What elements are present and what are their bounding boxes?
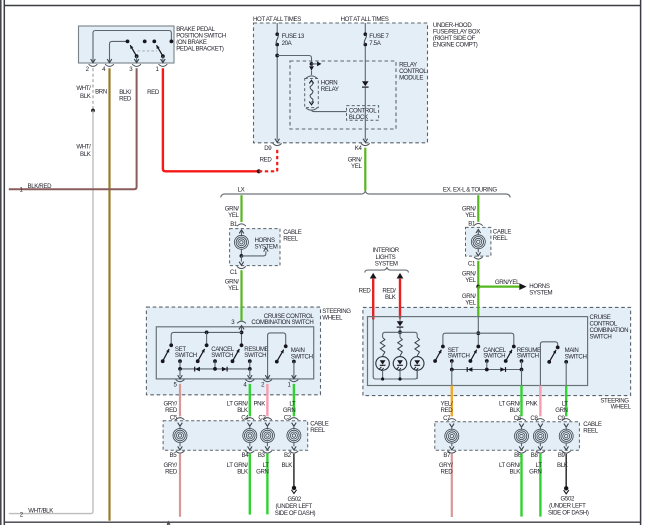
wire diode to K4 — [363, 88, 368, 143]
label LT GRN/BLK (C6) — [499, 400, 521, 414]
svg-text:B5: B5 — [170, 452, 178, 459]
label GRN/YEL (LX upper) — [225, 205, 240, 219]
wire LT GRN from B8 down — [539, 454, 541, 517]
svg-text:WHEEL: WHEEL — [322, 315, 343, 322]
horn relay coil K (box) — [305, 76, 319, 108]
svg-text:BRN: BRN — [95, 89, 107, 96]
svg-text:WHT/: WHT/ — [76, 85, 91, 92]
label LT GRN (pin1) — [283, 400, 296, 414]
wire fuse 7 down to diode — [364, 46, 366, 81]
label cruise control combination switch (EX) — [590, 314, 629, 341]
label cruise control combination switch (LX) — [251, 313, 314, 326]
label GRY/RED (pin5) — [164, 400, 178, 414]
cancel switch (EX) — [469, 345, 507, 370]
label LT GRN/BLK (pin4) — [227, 400, 249, 414]
connector pins 5 4 2 1 (LX cruise) — [174, 380, 299, 389]
svg-text:BLK: BLK — [510, 468, 521, 475]
wire BLK from B2 to ground G502 — [293, 454, 295, 486]
svg-text:COMBINATION SWITCH: COMBINATION SWITCH — [251, 319, 313, 326]
arrow up to interior lights (RED) — [370, 273, 377, 279]
connectors B5 B4 B3 B2 — [170, 451, 299, 459]
wire resume contact to pin C6 (EX) — [521, 370, 523, 386]
wire LT GRN/BLK pin4 to C4 — [249, 384, 251, 417]
label cable reel lower right — [583, 421, 602, 435]
set switch (LX) — [161, 343, 197, 369]
label horns system (EX) — [529, 283, 552, 297]
node - relay feed junction — [310, 62, 314, 66]
svg-text:SWITCH: SWITCH — [565, 353, 587, 360]
brace for interior lights system — [365, 267, 409, 273]
wire GRN/YEL EX branch to B1 — [477, 195, 479, 222]
svg-text:C6: C6 — [514, 415, 522, 422]
splice node on WHT/BLK wire — [91, 109, 95, 113]
svg-text:BLK: BLK — [385, 294, 396, 301]
wire GRN/YEL entering LX cruise box — [240, 307, 242, 321]
label GRY/RED (B5) — [164, 462, 178, 476]
arrow down to horn relay — [309, 66, 314, 75]
svg-text:WHT/BLK: WHT/BLK — [28, 507, 53, 514]
svg-text:ENGINE COMPT): ENGINE COMPT) — [433, 42, 478, 49]
main switch (EX) — [540, 342, 586, 386]
svg-text:BLK: BLK — [557, 462, 568, 469]
resistor R2 + LED 2 (illumination) — [393, 332, 407, 379]
gang link (dashed) between blades — [138, 50, 158, 52]
node - brake switch open contact — [143, 40, 147, 44]
label LT GRN (B8) — [529, 462, 542, 476]
cable reel coil C2/B2 — [287, 423, 301, 450]
wire LT GRN/BLK from B4 down — [249, 454, 251, 515]
svg-text:BLK: BLK — [80, 93, 91, 100]
label 2 WHT/BLK at left edge — [20, 507, 53, 518]
branch arrow to horns system (LX) — [241, 248, 268, 256]
svg-text:SWITCH: SWITCH — [175, 352, 197, 359]
cable reel coil C9/B9 — [559, 424, 573, 450]
svg-text:SWITCH: SWITCH — [291, 354, 313, 361]
svg-text:GRN: GRN — [256, 468, 269, 475]
label GRY/RED (B7) — [439, 462, 453, 476]
diode D1 (LX rail, cathode left) — [195, 367, 200, 372]
arrow up to interior lights (RED/BLK) — [397, 273, 404, 279]
svg-text:B2: B2 — [284, 452, 292, 459]
cruise switch LX inner box — [156, 327, 313, 379]
wire GRN/YEL from K4 to branch bus — [364, 148, 366, 191]
label G502 under left side of dash (right) — [548, 496, 589, 517]
svg-text:REEL: REEL — [583, 428, 598, 435]
wire LT GRN C9 — [565, 386, 567, 417]
label G502 under left side of dash (left) — [275, 496, 316, 517]
wire horn relay to control block — [312, 110, 347, 112]
svg-text:BLK: BLK — [510, 407, 521, 414]
svg-text:BLK: BLK — [282, 462, 293, 469]
svg-text:B4: B4 — [242, 452, 250, 459]
wire BRN from pin 4 — [108, 68, 110, 521]
node - brake switch pin2 contact — [170, 40, 174, 44]
wire LT GRN/BLK from B6 down — [520, 454, 522, 517]
wire BLK from B9 to ground G502 — [565, 454, 567, 487]
LED feed rail — [383, 332, 418, 337]
wire RED dashed to connector D9 — [259, 148, 277, 172]
label RED/BLK — [382, 288, 396, 302]
resume switch (LX) — [231, 343, 269, 369]
diode D4 (EX rail, cathode right) — [500, 367, 505, 372]
svg-text:SWITCH: SWITCH — [517, 353, 539, 360]
wire cable reel to C1 (LX) — [239, 256, 244, 265]
svg-text:HOT AT ALL TIMES: HOT AT ALL TIMES — [341, 16, 389, 23]
arrow into control block (right) — [312, 62, 322, 67]
svg-text:(UNDER LEFT: (UNDER LEFT — [275, 503, 312, 510]
wire PNK C8 — [539, 386, 541, 417]
wire YEL/RED C7 — [451, 386, 453, 417]
svg-text:C1: C1 — [230, 269, 238, 276]
svg-text:YEL: YEL — [465, 212, 476, 219]
node cancel rail junction (LX) — [205, 331, 209, 335]
wire BLK/RED from pin 3 to left edge connector 1 — [9, 68, 137, 189]
junction node on fuse13 feed — [275, 54, 279, 58]
connectors C5 C4 C3 C2 — [170, 414, 298, 421]
svg-text:SWITCH: SWITCH — [448, 353, 470, 360]
svg-text:RED: RED — [260, 156, 273, 163]
svg-text:SYSTEM: SYSTEM — [529, 289, 552, 296]
svg-text:LX: LX — [238, 187, 245, 194]
wire WHT/BLK solid to left edge connector 2 — [9, 111, 93, 514]
cable reel (EX) box — [466, 227, 491, 256]
svg-text:SYSTEM: SYSTEM — [375, 261, 398, 268]
svg-text:REEL: REEL — [493, 235, 508, 242]
label cable reel (EX) — [493, 229, 512, 243]
fuse F7 7.5A — [364, 23, 390, 47]
wire GRN/YEL C1 to junction — [477, 261, 479, 287]
resistor R3 + LED 3 (illumination) — [410, 337, 424, 379]
svg-text:RED: RED — [359, 288, 372, 295]
svg-text:PNK: PNK — [526, 400, 538, 407]
label steering wheel (LX) — [322, 308, 351, 322]
fuse F13 20A — [275, 23, 304, 47]
svg-text:REEL: REEL — [283, 236, 298, 243]
connector B1 (EX cable reel) — [468, 220, 482, 227]
connector pin 3 (LX cruise) — [231, 319, 246, 329]
wire GRN/YEL C1 to cruise switch pin 3 — [240, 270, 242, 320]
svg-text:SWITCH: SWITCH — [211, 352, 233, 359]
label LT GRN (B3) — [256, 462, 269, 476]
wire set contact to pin C7 (EX) — [451, 370, 453, 386]
label relay control module — [399, 61, 427, 81]
svg-text:BLK: BLK — [237, 407, 248, 414]
label steering wheel (EX) — [600, 398, 631, 411]
under-hood fuse/relay box — [254, 23, 428, 143]
label horns system (LX) — [255, 237, 278, 251]
wire LT GRN from B3 down — [266, 454, 268, 515]
svg-text:B8: B8 — [531, 452, 539, 459]
svg-text:B3: B3 — [258, 452, 266, 459]
svg-text:RED: RED — [165, 407, 178, 414]
wire GRY/RED pin5 to C5 — [179, 384, 181, 417]
pin arrows into brake box bottom — [91, 59, 112, 63]
label WHT/BLK — [76, 85, 91, 100]
svg-text:HOT AT ALL TIMES: HOT AT ALL TIMES — [253, 16, 301, 23]
svg-text:YEL: YEL — [351, 163, 362, 170]
cable reel coil C3/B3 — [260, 423, 274, 450]
ground G502 (left) — [291, 486, 296, 494]
svg-text:EX. EX-L & TOURING: EX. EX-L & TOURING — [443, 186, 497, 193]
cable reel coil C8/B8 — [533, 424, 547, 450]
splice node RED to D9 — [257, 169, 261, 173]
label horn relay — [321, 79, 339, 93]
diode D3 (EX rail, cathode left) — [467, 367, 472, 372]
svg-text:RED: RED — [119, 95, 132, 102]
control block (dashed box) — [347, 106, 379, 121]
svg-text:SWITCH: SWITCH — [483, 353, 505, 360]
wire RED/BLK interior lights — [399, 279, 401, 319]
cable reel lower right (box) — [435, 422, 580, 451]
svg-text:20A: 20A — [282, 40, 293, 47]
svg-text:YEL: YEL — [228, 212, 239, 219]
svg-text:BLK: BLK — [80, 151, 91, 158]
svg-text:YEL: YEL — [465, 277, 476, 284]
arrow to horns system (EX) — [519, 283, 526, 290]
wire - brake switch internal pin2 to contact — [93, 31, 171, 64]
wire WHT/BLK (dashed) from pin 2 — [92, 68, 94, 110]
main switch (LX) — [265, 333, 312, 379]
branch bus LX / EX brace — [221, 191, 511, 198]
cruise control combination switch EX (outer box) — [363, 307, 631, 395]
junction node GRN/YEL to horns system — [476, 285, 480, 289]
svg-text:SIDE OF DASH): SIDE OF DASH) — [275, 510, 316, 517]
top rail (LX cruise) — [171, 332, 241, 345]
label GRN/YEL (EX mid) — [462, 270, 477, 284]
wire GRN/YEL branch to horns system — [478, 286, 519, 288]
label under-hood fuse/relay box — [433, 22, 480, 48]
set switch (EX) — [433, 345, 469, 370]
svg-text:GRN: GRN — [555, 407, 568, 414]
wire PNK pin2 to C3 — [266, 384, 268, 417]
svg-text:GRN/YEL: GRN/YEL — [495, 279, 520, 286]
cable reel coil C6/B6 — [515, 424, 529, 450]
svg-text:(UNDER LEFT: (UNDER LEFT — [549, 503, 586, 510]
svg-text:RED: RED — [440, 407, 453, 414]
svg-text:7.5A: 7.5A — [369, 40, 381, 47]
resistor R1 + LED 1 (illumination) — [376, 337, 390, 379]
connector D9 — [264, 143, 281, 152]
svg-text:MODULE: MODULE — [399, 74, 423, 81]
label 1 BLK/RED at left edge — [19, 183, 52, 194]
resume switch (EX) — [504, 345, 541, 370]
wire - branch to relay module — [277, 56, 311, 64]
svg-text:REEL: REEL — [310, 427, 325, 434]
svg-text:C1: C1 — [468, 260, 476, 267]
diode in relay module (K4 feed) — [362, 81, 369, 86]
label GRN/YEL at K4 — [348, 156, 363, 170]
label GRN/YEL (LX mid) — [225, 279, 240, 293]
wire RED from pin 1 — [163, 68, 259, 171]
switch blade 1 (brake) — [126, 40, 139, 63]
connector C1 (EX) — [468, 257, 483, 267]
svg-text:BLK: BLK — [237, 468, 248, 475]
wire LT GRN pin1 to C2 — [293, 384, 295, 417]
cable reel coil C7/B7 — [445, 424, 459, 450]
brake pedal switch label — [176, 26, 226, 52]
node top rail junction (LX) — [240, 331, 244, 335]
svg-text:GRN: GRN — [283, 407, 296, 414]
wire GRN/YEL entering EX cruise box — [477, 307, 479, 317]
svg-text:GRN: GRN — [529, 468, 542, 475]
label WHT/BLK (second) — [76, 144, 91, 159]
wire RED inside (illumination return) — [372, 318, 374, 378]
svg-text:G502: G502 — [287, 496, 301, 503]
svg-text:PNK: PNK — [253, 400, 265, 407]
wire RED interior lights — [372, 279, 374, 320]
wire GRY/RED from B5 down — [179, 454, 181, 517]
svg-text:SYSTEM: SYSTEM — [255, 244, 278, 251]
bottom rail (EX cruise) — [450, 368, 523, 372]
svg-text:K4: K4 — [355, 145, 363, 152]
svg-text:RED: RED — [165, 468, 178, 475]
svg-text:SWITCH: SWITCH — [244, 352, 266, 359]
cable reel coil C4/B4 — [243, 423, 257, 450]
junction node in cable reel — [240, 254, 244, 258]
label BLK/RED — [119, 89, 132, 103]
wire RED entering EX cruise box — [372, 307, 374, 320]
top rail (EX cruise) — [443, 333, 514, 346]
svg-text:PEDAL BRACKET): PEDAL BRACKET) — [176, 46, 224, 53]
ground G502 (right) — [564, 486, 569, 494]
cable reel coil (LX) — [234, 230, 248, 254]
wire - brake switch internal pin4 to pivot — [110, 41, 128, 63]
svg-text:B7: B7 — [443, 452, 451, 459]
svg-text:YEL: YEL — [228, 285, 239, 292]
svg-text:D9: D9 — [264, 145, 272, 152]
svg-text:BLK/RED: BLK/RED — [28, 183, 53, 190]
svg-text:RED: RED — [147, 89, 160, 96]
cursor artifact mark — [167, 520, 171, 525]
connector pins 2 4 3 1 of brake switch — [86, 64, 168, 73]
svg-text:RED: RED — [440, 468, 453, 475]
wire resume contact to pin 4 — [248, 369, 253, 379]
svg-text:YEL: YEL — [465, 300, 476, 307]
wire LT GRN/BLK C6 — [520, 386, 522, 417]
wire RED/BLK entering EX cruise box — [399, 307, 401, 319]
relay control module (dashed box) — [290, 61, 396, 129]
label interior lights system — [373, 247, 400, 267]
wire GRY/RED from B7 down — [451, 454, 453, 517]
connector B1 (left cable reel) — [230, 221, 246, 228]
svg-text:WHT/: WHT/ — [76, 144, 91, 151]
svg-text:B9: B9 — [558, 452, 566, 459]
wire GRN/YEL LX branch to B1 — [240, 195, 242, 222]
label LT GRN (C9) — [555, 400, 568, 414]
label cable reel lower left — [310, 420, 329, 434]
cable reel lower left (box) — [163, 421, 308, 451]
horn relay coil winding — [306, 80, 317, 110]
label GRN/YEL (EX lower) — [462, 293, 477, 307]
node top rail junction (EX) — [476, 331, 480, 335]
connector C1 (LX) — [230, 266, 246, 276]
cruise switch EX inner box — [368, 317, 588, 386]
svg-text:SIDE OF DASH): SIDE OF DASH) — [548, 510, 589, 517]
label LT GRN/BLK (B6) — [499, 462, 521, 476]
cruise control combination switch LX (outer box) — [146, 307, 320, 395]
svg-text:C7: C7 — [443, 415, 451, 422]
label cable reel (LX) — [283, 229, 302, 243]
switch blade 2 (brake) — [152, 40, 165, 63]
svg-text:C9: C9 — [558, 415, 566, 422]
svg-text:SWITCH: SWITCH — [590, 334, 612, 341]
connector K4 — [355, 143, 370, 151]
label YEL/RED — [440, 400, 453, 414]
diode on RED/BLK feed — [397, 317, 404, 333]
diode D2 (LX rail, cathode right) — [222, 367, 227, 372]
cable reel coil C5/B5 — [173, 423, 187, 450]
cable reel coil (EX) — [471, 230, 485, 256]
svg-text:RELAY: RELAY — [321, 86, 339, 93]
LED bottom rail — [373, 370, 417, 380]
wire set contact to pin 5 — [178, 369, 183, 379]
svg-text:C8: C8 — [530, 415, 538, 422]
svg-text:G502: G502 — [561, 496, 575, 503]
svg-text:B1: B1 — [230, 221, 238, 228]
connectors C7 C6 C8 C9 — [443, 415, 570, 422]
bottom rail (LX cruise) — [178, 367, 252, 371]
node LED feed rail junction — [398, 330, 402, 334]
svg-text:B1: B1 — [468, 220, 476, 227]
wire pin3 entry to resume pivot — [241, 327, 243, 346]
wire GRN/YEL junction to cruise (EX) — [477, 287, 479, 318]
wire entry to cancel pivot (EX) — [477, 317, 479, 347]
wire from fuse 13 to D9 — [275, 46, 280, 142]
brake pedal position switch (box) — [79, 26, 175, 63]
label LT GRN/BLK (B4) — [227, 462, 249, 476]
connectors B7 B6 B8 B9 — [443, 451, 570, 459]
cancel switch (LX) — [196, 332, 235, 369]
cable reel (LX horn) box — [230, 229, 280, 266]
svg-text:WHEEL: WHEEL — [611, 404, 632, 411]
label GRN/YEL (EX upper) — [462, 205, 477, 219]
